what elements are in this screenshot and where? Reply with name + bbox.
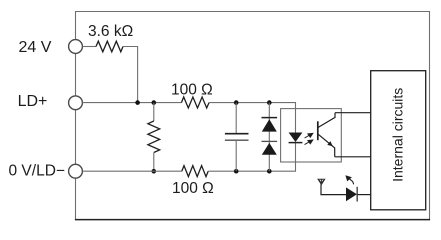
resistor R2 vertical (148, 103, 160, 172)
opto light arrow lower (305, 140, 313, 145)
light arrow onto photodiode (346, 176, 354, 184)
svg-text:3.6 kΩ: 3.6 kΩ (88, 23, 133, 40)
wire antenna to photodiode (321, 184, 346, 194)
node diode stack top (267, 100, 272, 105)
svg-text:LD+: LD+ (18, 93, 48, 110)
resistor R3 100 Ohm top (181, 97, 209, 108)
optocoupler package box (281, 109, 342, 162)
phototransistor Q1 (318, 113, 335, 157)
wire LD+ rail right of R3 (209, 103, 296, 133)
wire R1 to LD+ rail (123, 47, 138, 103)
capacitor C1 (225, 103, 249, 172)
svg-text:100 Ω: 100 Ω (171, 82, 213, 99)
wire photodiode to internal circuits (357, 194, 371, 196)
svg-text:Internal circuits: Internal circuits (390, 88, 406, 182)
wire LD+ rail (82, 102, 181, 104)
wire 0V rail (82, 170, 181, 172)
wire collector to internal circuits (335, 112, 371, 114)
diode D1 (262, 118, 278, 132)
node R2 top junction on LD+ rail (152, 100, 157, 105)
svg-text:100 Ω: 100 Ω (172, 180, 214, 197)
wire 24V terminal to R1 (82, 46, 96, 48)
wire 0V rail right of R4 (208, 143, 295, 171)
wire diode stack vertical (268, 103, 270, 172)
terminal 24 V (69, 40, 83, 54)
node R1 junction on LD+ rail (135, 100, 140, 105)
wire emitter to internal circuits (335, 156, 371, 158)
node capacitor top (234, 100, 239, 105)
resistor R4 100 Ohm bottom (182, 166, 208, 177)
opto light arrow upper (305, 133, 313, 138)
outer enclosure box (75, 12, 430, 220)
internal circuits box (371, 71, 426, 210)
resistor R1 3.6 kOhm (96, 41, 123, 52)
antenna symbol (light input) (318, 179, 325, 185)
node capacitor bottom (234, 169, 239, 174)
svg-text:0 V/LD−: 0 V/LD− (9, 163, 65, 180)
svg-text:24 V: 24 V (19, 39, 52, 56)
terminal LD+ (69, 96, 83, 110)
terminal 0 V/LD- (69, 164, 83, 178)
node R2 bottom junction on 0V rail (152, 169, 157, 174)
node diode stack bottom (267, 169, 272, 174)
photodiode D4 (346, 187, 357, 202)
opto LED D3 (289, 133, 303, 143)
diode D2 (262, 141, 278, 154)
